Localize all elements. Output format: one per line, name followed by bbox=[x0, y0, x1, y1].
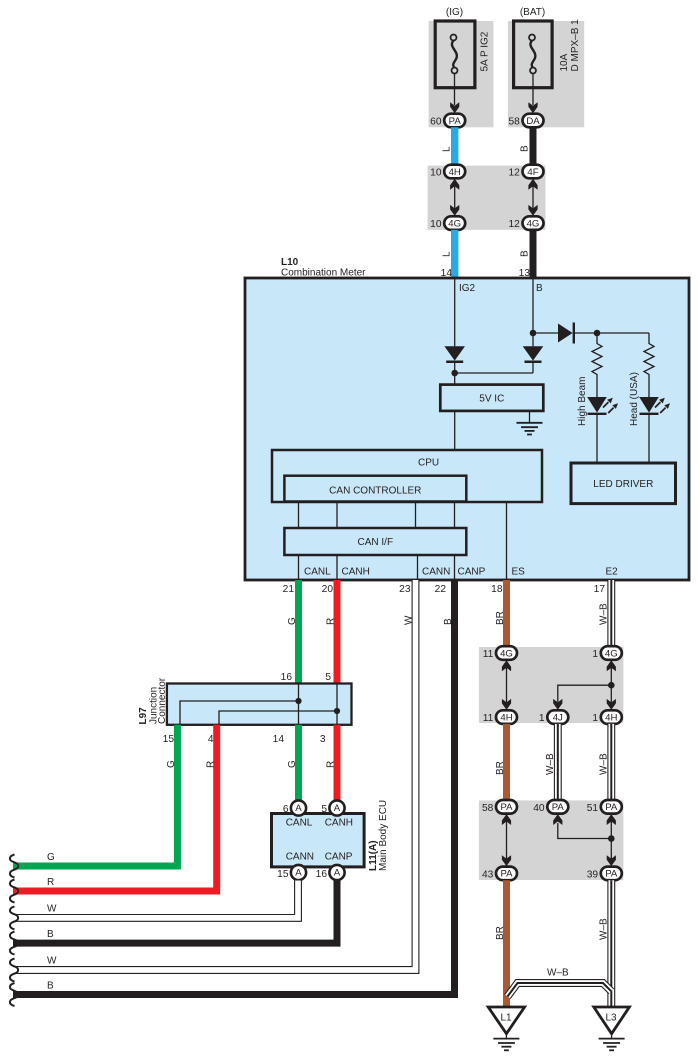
node at resistor R1 bbox=[594, 330, 601, 337]
pin 1 4H oval right bbox=[592, 710, 621, 724]
wire between 4H and 4G bbox=[454, 178, 456, 216]
wire R junction pin3 to ECU bbox=[334, 725, 341, 801]
fuse F2 box bbox=[514, 21, 553, 88]
svg-text:6: 6 bbox=[283, 804, 289, 815]
wire fuse F2 to pin 58 bbox=[532, 74, 534, 106]
wire between PA 51 and 39 bbox=[610, 814, 612, 867]
node on E2 line bbox=[608, 682, 615, 689]
wire R junction pin4 to left edge bbox=[13, 725, 217, 891]
pin 43 PA oval bbox=[482, 867, 517, 881]
svg-text:16: 16 bbox=[281, 672, 293, 683]
svg-text:G: G bbox=[287, 760, 298, 768]
svg-text:A: A bbox=[334, 803, 341, 814]
svg-text:L3: L3 bbox=[606, 1013, 618, 1024]
arrow down into 4J bbox=[553, 699, 562, 710]
svg-text:12: 12 bbox=[508, 168, 520, 179]
svg-text:High Beam: High Beam bbox=[577, 377, 588, 426]
svg-text:4H: 4H bbox=[605, 712, 617, 723]
svg-text:R: R bbox=[326, 761, 337, 768]
squiggle B bbox=[10, 932, 18, 955]
svg-text:E2: E2 bbox=[606, 567, 619, 578]
svg-text:BR: BR bbox=[495, 761, 506, 775]
svg-text:(IG): (IG) bbox=[446, 7, 463, 18]
svg-text:R: R bbox=[206, 761, 217, 768]
svg-text:A: A bbox=[295, 868, 302, 879]
arrow into pin 60 bbox=[450, 102, 459, 113]
svg-text:G: G bbox=[166, 760, 177, 768]
svg-text:39: 39 bbox=[587, 869, 599, 880]
svg-text:L97: L97 bbox=[138, 707, 149, 725]
wire CANL green meter to junction bbox=[295, 580, 302, 684]
arrow up into 4F bbox=[528, 179, 537, 190]
svg-text:4G: 4G bbox=[527, 218, 540, 229]
fuse F1 symbol bbox=[451, 35, 458, 74]
svg-text:Main Body ECU: Main Body ECU bbox=[378, 800, 389, 871]
pin 6 A circle bbox=[283, 800, 306, 815]
svg-text:LED DRIVER: LED DRIVER bbox=[593, 479, 653, 490]
pin 51 PA oval bbox=[587, 800, 622, 814]
svg-text:11: 11 bbox=[483, 713, 494, 724]
svg-text:58: 58 bbox=[508, 117, 520, 128]
svg-text:CANN: CANN bbox=[286, 852, 314, 863]
wire between 4F and 4G bbox=[532, 178, 534, 216]
svg-text:R: R bbox=[326, 618, 337, 625]
svg-text:5: 5 bbox=[321, 804, 327, 815]
svg-text:4J: 4J bbox=[553, 712, 563, 723]
svg-text:4: 4 bbox=[208, 734, 214, 745]
svg-text:4G: 4G bbox=[605, 648, 618, 659]
wire W-B 4J to PA block bbox=[554, 724, 562, 801]
wire W ecu pin15 to left edge bbox=[13, 881, 298, 918]
separator CANN bbox=[417, 555, 419, 580]
junction internal CANL branch bbox=[180, 701, 299, 725]
wire B ecu pin16 to left edge bbox=[13, 881, 337, 944]
pin 11 4G oval bbox=[483, 646, 517, 660]
svg-text:CAN I/F: CAN I/F bbox=[358, 537, 394, 548]
wire ES from CPU bbox=[506, 502, 508, 580]
fuse area gray background (BAT) bbox=[508, 21, 584, 127]
junction internal CANL line bbox=[298, 684, 300, 725]
svg-text:B: B bbox=[47, 929, 54, 940]
arrow down into 4H right bbox=[607, 699, 616, 710]
svg-text:10: 10 bbox=[430, 219, 442, 230]
svg-text:16: 16 bbox=[316, 869, 328, 880]
svg-text:51: 51 bbox=[587, 803, 599, 814]
svg-text:CAN CONTROLLER: CAN CONTROLLER bbox=[329, 486, 421, 497]
svg-text:W: W bbox=[404, 615, 415, 625]
ground symbol internal bbox=[517, 423, 543, 435]
B internal line bbox=[532, 278, 534, 346]
node on PA51 line bbox=[608, 835, 615, 842]
node on B line bbox=[530, 330, 537, 337]
svg-text:B: B bbox=[520, 145, 531, 152]
separator CANL bbox=[298, 555, 300, 580]
svg-text:10A: 10A bbox=[559, 53, 570, 71]
CAN CONTROLLER box bbox=[284, 476, 466, 502]
wire B black upper bbox=[530, 127, 537, 166]
pin 40 PA oval bbox=[533, 800, 568, 814]
ground L1 hatch bbox=[505, 1034, 507, 1039]
connector block gray background bbox=[428, 166, 546, 230]
svg-text:IG2: IG2 bbox=[459, 283, 476, 294]
svg-text:18: 18 bbox=[491, 584, 503, 595]
svg-text:PA: PA bbox=[552, 802, 565, 813]
pin 10 4H oval bbox=[430, 165, 465, 179]
wire PA 40 branch to E2 line bbox=[558, 823, 612, 839]
wire BR ES meter to connector bbox=[503, 580, 510, 648]
svg-text:G: G bbox=[287, 617, 298, 625]
squiggle B lower bbox=[10, 983, 18, 1006]
squiggle W lower bbox=[10, 959, 18, 982]
svg-text:15: 15 bbox=[277, 869, 289, 880]
svg-text:5: 5 bbox=[325, 672, 331, 683]
svg-text:CANL: CANL bbox=[304, 567, 331, 578]
separator CANP bbox=[454, 555, 456, 580]
svg-text:B: B bbox=[47, 981, 54, 992]
ground stem from 5V IC bbox=[529, 411, 531, 423]
svg-text:CPU: CPU bbox=[418, 458, 439, 469]
svg-text:1: 1 bbox=[592, 649, 598, 660]
svg-text:D MPX–B 1: D MPX–B 1 bbox=[570, 19, 581, 72]
wire CANN white meter to bottom left bbox=[13, 580, 416, 970]
squiggle G bbox=[10, 855, 18, 878]
svg-text:PA: PA bbox=[449, 116, 462, 127]
arrow up into PA 58 bbox=[502, 814, 511, 825]
svg-text:(BAT): (BAT) bbox=[520, 7, 545, 18]
wire D2 to junction bbox=[532, 362, 534, 373]
wire between 4G and 4H right bbox=[610, 660, 612, 711]
svg-text:10: 10 bbox=[430, 168, 442, 179]
squiggle W bbox=[10, 906, 18, 929]
svg-text:PA: PA bbox=[605, 869, 618, 880]
pin 5 A circle bbox=[321, 800, 344, 815]
wire W-B E2 meter to connector bbox=[607, 580, 615, 648]
PA block gray background bbox=[479, 800, 624, 880]
arrow down into 4G bbox=[450, 205, 459, 216]
wire L cyan upper bbox=[451, 127, 458, 166]
ground L3 triangle bbox=[594, 1007, 630, 1034]
svg-text:4H: 4H bbox=[500, 712, 512, 723]
pin 1 4J oval bbox=[539, 710, 568, 724]
svg-text:L: L bbox=[442, 146, 453, 152]
wire W-B PA39 to ground L3 bbox=[607, 880, 615, 1008]
svg-text:L1: L1 bbox=[501, 1013, 513, 1024]
svg-text:Head (USA): Head (USA) bbox=[629, 372, 640, 426]
LED1 High Beam bbox=[587, 397, 618, 414]
diode D3 bbox=[558, 323, 574, 344]
pin 10 4G oval bbox=[430, 216, 465, 230]
connector block right gray background bbox=[479, 647, 624, 723]
svg-text:B: B bbox=[443, 618, 454, 625]
wire CANP black meter to bottom left bbox=[13, 580, 455, 995]
svg-text:4G: 4G bbox=[448, 218, 461, 229]
svg-text:W: W bbox=[47, 904, 57, 915]
wire CANL controller to IF bbox=[298, 502, 300, 529]
wire between PA 58 and 43 bbox=[506, 814, 508, 867]
svg-text:W: W bbox=[47, 956, 57, 967]
wire W-B 4H to PA block bbox=[607, 724, 615, 801]
svg-text:4G: 4G bbox=[500, 648, 513, 659]
svg-text:43: 43 bbox=[482, 869, 494, 880]
wire CANH controller to IF bbox=[336, 502, 338, 529]
combination meter L10 box bbox=[245, 278, 689, 580]
svg-text:L10: L10 bbox=[281, 257, 299, 268]
pin 58 DA oval bbox=[508, 114, 543, 128]
svg-text:BR: BR bbox=[495, 611, 506, 625]
pin 12 4G oval bbox=[508, 216, 543, 230]
wire CANN controller to IF bbox=[415, 502, 417, 529]
junction internal CANH branch bbox=[219, 711, 337, 725]
svg-text:1: 1 bbox=[539, 713, 545, 724]
svg-text:W–B: W–B bbox=[599, 918, 610, 940]
arrow up into 4G left bbox=[502, 660, 511, 671]
wire between 4G and 4H left bbox=[506, 660, 508, 711]
node junction CANL bbox=[295, 698, 301, 704]
wire CANH red meter to junction bbox=[334, 580, 341, 684]
fuse F2 symbol bbox=[529, 35, 536, 74]
svg-text:W–B: W–B bbox=[599, 753, 610, 775]
5V IC box bbox=[440, 385, 543, 411]
arrow into pin 58 bbox=[528, 102, 537, 113]
svg-text:17: 17 bbox=[594, 584, 606, 595]
LED DRIVER box bbox=[571, 463, 676, 504]
svg-text:B: B bbox=[520, 250, 531, 257]
fuse F1 box bbox=[435, 21, 475, 88]
wire LED1 to LED driver bbox=[596, 414, 598, 463]
squiggle R bbox=[10, 880, 18, 903]
svg-text:12: 12 bbox=[508, 219, 520, 230]
LED2 Head (USA) bbox=[639, 397, 670, 414]
pin 12 4F oval bbox=[508, 165, 543, 179]
svg-text:CANH: CANH bbox=[325, 818, 353, 829]
svg-text:4F: 4F bbox=[527, 167, 538, 178]
svg-text:58: 58 bbox=[482, 803, 494, 814]
svg-text:R: R bbox=[47, 877, 54, 888]
diode D1 bbox=[444, 346, 465, 362]
wire joining D1 D2 cathodes bbox=[455, 372, 533, 374]
svg-text:4H: 4H bbox=[449, 167, 461, 178]
wire W-B jog between grounds bbox=[508, 983, 612, 997]
junction internal CANH line bbox=[336, 684, 338, 725]
svg-text:PA: PA bbox=[605, 802, 618, 813]
arrow up into 4H bbox=[450, 179, 459, 190]
wire L cyan lower bbox=[451, 230, 458, 278]
diode D2 bbox=[523, 346, 544, 362]
svg-text:14: 14 bbox=[273, 734, 285, 745]
svg-text:15: 15 bbox=[163, 734, 175, 745]
wire G junction pin14 to ECU bbox=[295, 725, 302, 801]
ground L3 hatch bbox=[611, 1034, 613, 1039]
pin 39 PA oval bbox=[587, 867, 622, 881]
arrow down into PA 43 bbox=[502, 855, 511, 866]
svg-text:DA: DA bbox=[526, 116, 540, 127]
pin 16 A circle bbox=[316, 865, 345, 880]
pin 58 PA oval bbox=[482, 800, 517, 814]
wire B node to diode D3 bbox=[533, 332, 558, 334]
node below D1 bbox=[451, 370, 458, 377]
svg-text:CANN: CANN bbox=[422, 567, 450, 578]
svg-text:23: 23 bbox=[399, 584, 411, 595]
svg-text:ES: ES bbox=[512, 567, 526, 578]
wire D3 to resistors bbox=[574, 332, 649, 334]
svg-text:CANL: CANL bbox=[286, 818, 313, 829]
svg-text:3: 3 bbox=[320, 734, 326, 745]
svg-text:Connector: Connector bbox=[157, 677, 168, 724]
svg-text:CANH: CANH bbox=[342, 567, 370, 578]
arrow up into 4G right bbox=[607, 660, 616, 671]
wire fuse F1 to pin 60 bbox=[454, 74, 456, 106]
svg-text:40: 40 bbox=[533, 803, 545, 814]
svg-text:1: 1 bbox=[592, 713, 598, 724]
svg-text:W–B: W–B bbox=[547, 968, 569, 979]
svg-text:CANP: CANP bbox=[325, 852, 353, 863]
branch wire to 4J bbox=[558, 685, 612, 702]
wire CANP controller to IF bbox=[454, 502, 456, 529]
svg-text:A: A bbox=[295, 803, 302, 814]
CPU box bbox=[272, 450, 542, 502]
svg-text:A: A bbox=[334, 868, 341, 879]
wire LED2 to LED driver bbox=[648, 414, 650, 463]
wire G junction pin15 to left edge bbox=[13, 725, 177, 866]
ground L1 triangle bbox=[488, 1007, 524, 1034]
svg-text:21: 21 bbox=[283, 584, 295, 595]
resistor R1 bbox=[592, 333, 602, 397]
arrow down into 4H left bbox=[502, 699, 511, 710]
svg-text:L: L bbox=[442, 251, 453, 257]
svg-text:20: 20 bbox=[322, 584, 334, 595]
svg-text:60: 60 bbox=[430, 117, 442, 128]
separator CANH bbox=[336, 555, 338, 580]
svg-text:G: G bbox=[47, 852, 55, 863]
pin 11 4H oval bbox=[483, 710, 517, 724]
wire 5V IC to CPU bbox=[454, 411, 456, 450]
arrow up into PA 51 bbox=[607, 814, 616, 825]
svg-text:CANP: CANP bbox=[458, 567, 486, 578]
svg-text:22: 22 bbox=[435, 584, 447, 595]
resistor R2 bbox=[644, 333, 654, 397]
svg-text:PA: PA bbox=[500, 869, 513, 880]
arrow down into PA 39 bbox=[607, 855, 616, 866]
svg-text:W–B: W–B bbox=[599, 603, 610, 625]
arrow down into 4G right bbox=[528, 205, 537, 216]
svg-text:B: B bbox=[536, 283, 543, 294]
svg-text:5A P IG2: 5A P IG2 bbox=[480, 31, 491, 71]
wire BR connector to PA block bbox=[503, 724, 510, 801]
svg-text:W–B: W–B bbox=[545, 753, 556, 775]
svg-text:11: 11 bbox=[483, 649, 494, 660]
wire BR PA block to ground L1 bbox=[503, 880, 510, 1008]
svg-text:PA: PA bbox=[500, 802, 513, 813]
fuse area gray background (IG) bbox=[429, 21, 494, 127]
CAN I/F box bbox=[284, 528, 466, 555]
arrow up into PA 40 bbox=[553, 814, 562, 825]
junction connector L97 box bbox=[167, 684, 352, 725]
main body ECU L11 box bbox=[272, 814, 365, 867]
wire B black lower bbox=[530, 230, 537, 278]
pin 15 A circle bbox=[277, 865, 306, 880]
pin 60 PA oval bbox=[430, 114, 465, 128]
node junction CANH bbox=[334, 708, 340, 714]
wire D1 to 5V IC bbox=[454, 362, 456, 385]
svg-text:BR: BR bbox=[495, 926, 506, 940]
svg-text:5V IC: 5V IC bbox=[479, 394, 504, 405]
IG2 internal line bbox=[454, 278, 456, 346]
svg-text:Combination Meter: Combination Meter bbox=[281, 268, 366, 279]
pin 1 4G oval right bbox=[592, 646, 621, 660]
